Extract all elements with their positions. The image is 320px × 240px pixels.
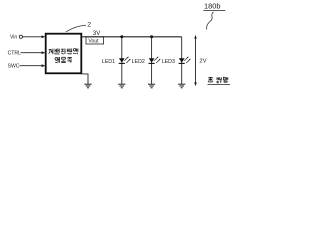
svg-text:180b: 180b xyxy=(204,1,220,10)
svg-text:LED3: LED3 xyxy=(162,59,175,65)
svg-text:Vout: Vout xyxy=(88,39,99,45)
svg-text:LED1: LED1 xyxy=(102,59,115,65)
svg-text:3V: 3V xyxy=(93,31,100,37)
svg-text:CTRL: CTRL xyxy=(8,50,21,56)
svg-text:SWC: SWC xyxy=(8,64,20,70)
svg-text:Vin: Vin xyxy=(10,35,17,41)
svg-text:2: 2 xyxy=(87,21,91,28)
svg-text:LED2: LED2 xyxy=(132,59,145,65)
svg-text:2V: 2V xyxy=(199,58,206,64)
